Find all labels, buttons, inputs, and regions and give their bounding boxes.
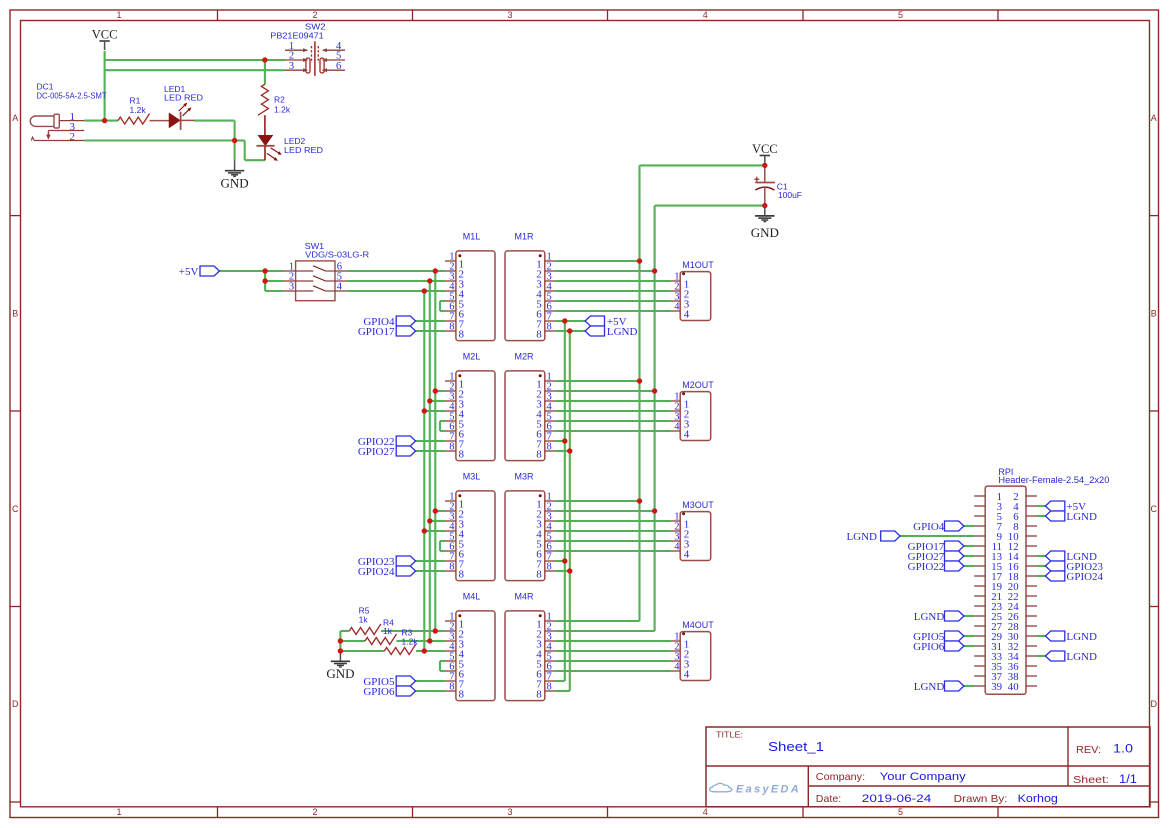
svg-text:8: 8 [547,681,552,692]
svg-text:2: 2 [70,131,76,143]
svg-text:GPIO4: GPIO4 [913,521,945,533]
svg-text:1: 1 [116,807,121,817]
svg-text:Drawn By:: Drawn By: [954,794,1008,805]
svg-text:6: 6 [336,61,341,72]
svg-text:3: 3 [507,807,512,817]
svg-text:8: 8 [536,329,542,341]
svg-text:1.0: 1.0 [1113,744,1133,756]
svg-text:4: 4 [674,421,680,432]
svg-text:LGND: LGND [1066,651,1097,663]
svg-text:GPIO17: GPIO17 [358,326,395,338]
svg-text:REV:: REV: [1076,745,1101,756]
svg-text:5: 5 [898,10,903,20]
svg-text:M2OUT: M2OUT [682,380,714,390]
svg-text:4: 4 [337,282,343,293]
svg-text:8: 8 [536,449,542,461]
svg-text:VCC: VCC [92,28,118,42]
svg-text:8: 8 [547,441,552,452]
svg-text:3: 3 [289,282,294,293]
svg-text:LED RED: LED RED [164,93,203,103]
svg-text:100uF: 100uF [778,190,802,200]
svg-text:1k: 1k [359,614,369,624]
svg-text:A: A [1151,113,1157,123]
svg-text:1: 1 [116,10,121,20]
svg-text:8: 8 [459,449,465,461]
svg-text:M2L: M2L [463,352,481,362]
svg-text:M1L: M1L [463,232,481,242]
svg-text:LGND: LGND [1066,511,1097,523]
svg-text:M3R: M3R [514,472,534,482]
svg-text:2: 2 [312,10,317,20]
svg-text:5: 5 [898,807,903,817]
svg-text:3: 3 [289,61,294,72]
svg-text:B: B [12,308,18,318]
svg-text:LGND: LGND [914,611,945,623]
svg-text:4: 4 [703,807,708,817]
svg-text:1.2k: 1.2k [402,636,419,646]
svg-text:M4R: M4R [514,592,534,602]
svg-text:4: 4 [684,669,690,681]
svg-text:DC-005-5A-2.5-SMT: DC-005-5A-2.5-SMT [37,91,107,101]
svg-text:A: A [12,113,18,123]
svg-text:4: 4 [674,301,680,312]
svg-text:LGND: LGND [1066,631,1097,643]
svg-text:Date:: Date: [816,794,841,805]
svg-text:2: 2 [312,807,317,817]
svg-text:Company:: Company: [816,772,865,783]
svg-text:4: 4 [703,10,708,20]
svg-text:8: 8 [536,569,542,581]
svg-text:4: 4 [674,661,680,672]
svg-text:VCC: VCC [752,142,778,156]
svg-text:2019-06-24: 2019-06-24 [862,793,932,805]
svg-text:GND: GND [326,666,354,681]
svg-text:LGND: LGND [914,681,945,693]
svg-text:C: C [12,504,19,514]
svg-text:M4L: M4L [463,592,481,602]
svg-text:4: 4 [674,541,680,552]
svg-text:1/1: 1/1 [1119,774,1137,786]
svg-text:4: 4 [684,309,690,321]
svg-text:LED RED: LED RED [284,145,323,155]
svg-text:M2R: M2R [514,352,534,362]
svg-text:GPIO6: GPIO6 [363,686,395,698]
svg-text:M3L: M3L [463,472,481,482]
svg-text:C: C [1151,504,1158,514]
svg-text:4: 4 [684,429,690,441]
svg-text:8: 8 [449,441,454,452]
svg-text:M3OUT: M3OUT [682,500,714,510]
svg-text:Header-Female-2.54_2x20: Header-Female-2.54_2x20 [998,475,1109,485]
svg-text:R1: R1 [130,96,141,106]
svg-text:39: 39 [991,681,1002,693]
svg-text:GPIO6: GPIO6 [913,641,945,653]
svg-text:R2: R2 [274,94,285,104]
svg-text:GPIO27: GPIO27 [358,446,395,458]
svg-text:PB21E09471: PB21E09471 [270,31,324,41]
svg-text:M1OUT: M1OUT [682,260,714,270]
svg-text:LGND: LGND [607,326,638,338]
svg-text:Sheet:: Sheet: [1073,775,1109,786]
svg-text:Your Company: Your Company [880,771,966,783]
svg-text:+5V: +5V [179,266,199,278]
svg-text:8: 8 [459,329,465,341]
svg-text:8: 8 [459,689,465,701]
svg-text:40: 40 [1008,681,1019,693]
svg-text:1.2k: 1.2k [274,104,291,114]
svg-text:VDG/S-03LG-R: VDG/S-03LG-R [305,249,369,259]
svg-text:GPIO22: GPIO22 [908,561,945,573]
svg-text:GND: GND [751,225,779,240]
svg-text:8: 8 [536,689,542,701]
svg-text:M4OUT: M4OUT [682,620,714,630]
svg-text:8: 8 [459,569,465,581]
svg-text:EasyEDA: EasyEDA [736,784,801,796]
svg-text:Sheet_1: Sheet_1 [768,739,824,754]
svg-text:4: 4 [684,549,690,561]
svg-text:GPIO24: GPIO24 [1066,571,1103,583]
svg-text:M1R: M1R [514,232,534,242]
svg-text:B: B [1151,308,1157,318]
svg-text:8: 8 [449,561,454,572]
svg-text:D: D [12,699,19,709]
svg-text:8: 8 [449,321,454,332]
svg-text:Korhog: Korhog [1018,793,1058,805]
svg-text:TITLE:: TITLE: [716,730,743,740]
svg-text:8: 8 [449,681,454,692]
svg-text:3: 3 [507,10,512,20]
svg-text:8: 8 [547,561,552,572]
svg-text:GPIO24: GPIO24 [358,566,395,578]
svg-text:1.2k: 1.2k [130,105,147,115]
svg-text:1k: 1k [383,626,393,636]
svg-text:GND: GND [221,175,249,190]
svg-text:D: D [1151,699,1158,709]
svg-text:LGND: LGND [846,531,877,543]
svg-text:8: 8 [547,321,552,332]
